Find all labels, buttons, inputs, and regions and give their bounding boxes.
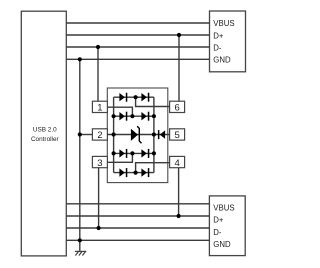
diode D5 pin5	[158, 130, 165, 139]
svg-text:2: 2	[97, 130, 102, 141]
pin 2	[92, 129, 107, 141]
diode D1 row1 left	[119, 93, 127, 102]
ground symbol	[75, 251, 86, 255]
svg-text:6: 6	[174, 103, 179, 114]
diode D7 row4 right	[141, 149, 149, 158]
top USB connector J1	[210, 11, 246, 72]
pin 4	[170, 156, 185, 168]
wire row3 zener row	[107, 134, 153, 136]
svg-text:USB 2.0: USB 2.0	[33, 127, 57, 134]
wire internal GND rail	[113, 97, 115, 172]
wire pin4 elbow from row5 node	[136, 163, 170, 173]
svg-text:GND: GND	[213, 56, 231, 65]
diode D8 row5 left	[119, 168, 127, 177]
junction dot D+ top	[177, 33, 181, 37]
wire row3 to pin5	[154, 134, 170, 136]
junction dot GND top	[78, 57, 82, 61]
junction dot D- top	[96, 45, 100, 49]
svg-text:GND: GND	[213, 240, 231, 249]
pin 6	[170, 101, 185, 113]
diode D6 row4 left	[119, 149, 127, 158]
junction dot row2 middle	[130, 114, 134, 118]
wire internal VCC rail	[153, 97, 155, 172]
svg-text:3: 3	[97, 158, 102, 169]
wire D- top	[66, 46, 209, 48]
USB 2.0 Controller box	[21, 11, 66, 256]
wire pin1 riser to D- top	[97, 47, 99, 101]
wire VBUS bottom	[66, 203, 209, 205]
junction dot row3 left rail	[112, 132, 116, 136]
wire row5	[114, 172, 154, 174]
pin 3	[92, 156, 107, 168]
svg-text:VBUS: VBUS	[213, 203, 234, 212]
wire D+ top	[66, 34, 209, 36]
wire GND top	[66, 58, 209, 60]
junction dot row3 right rail	[152, 132, 156, 136]
wire pin1 elbow to row2	[107, 107, 132, 116]
svg-text:D-: D-	[213, 43, 222, 52]
svg-text:D-: D-	[213, 228, 222, 237]
junction dot row4 middle	[130, 151, 134, 155]
junction dot D- bottom	[97, 226, 101, 230]
wire row2	[114, 115, 154, 117]
junction dot row4 right rail	[152, 151, 156, 155]
svg-text:D+: D+	[213, 216, 224, 225]
svg-text:5: 5	[174, 130, 179, 141]
junction dot node N2 row5	[134, 171, 138, 175]
junction dot node N1 row1	[134, 95, 138, 99]
wire VBUS top	[66, 22, 209, 24]
wire row1	[114, 96, 154, 98]
svg-text:VBUS: VBUS	[213, 19, 234, 28]
wire pin6 riser to D+ top	[178, 35, 180, 101]
wire pin2 to GND rail	[80, 134, 93, 136]
wire row4	[114, 152, 154, 154]
wire GND rail vertical	[79, 59, 81, 251]
ESD array U1 outline	[107, 88, 168, 183]
svg-text:D+: D+	[213, 32, 224, 41]
wire pin6 elbow from row1 node	[136, 97, 170, 106]
junction dot row4 left rail	[112, 151, 116, 155]
wire GND bottom	[66, 239, 209, 241]
diode D9 row5 right	[141, 168, 149, 177]
wire D- bottom	[66, 227, 209, 229]
zener diode Z1	[131, 126, 142, 143]
junction dot GND bottom	[78, 238, 82, 242]
junction dot row2 left rail	[112, 114, 116, 118]
bottom USB connector J2	[209, 196, 245, 256]
svg-text:1: 1	[97, 103, 102, 114]
junction dot pin2 GND rail	[78, 132, 82, 136]
wire pin3 dropper to D- bottom	[98, 168, 100, 228]
diode D3 row2 left	[119, 112, 127, 121]
svg-text:Controller: Controller	[31, 136, 60, 143]
wire pin3 elbow to row4	[107, 153, 132, 162]
pin 1	[92, 101, 107, 113]
pin 5	[170, 129, 185, 141]
junction dot row2 right rail	[152, 114, 156, 118]
wire pin4 dropper to D+ bottom	[178, 168, 180, 216]
diode D4 row2 right	[141, 112, 149, 121]
diode D2 row1 right	[141, 93, 149, 102]
junction dot D+ bottom	[177, 214, 181, 218]
wire D+ bottom	[66, 215, 209, 217]
svg-text:4: 4	[174, 158, 179, 169]
